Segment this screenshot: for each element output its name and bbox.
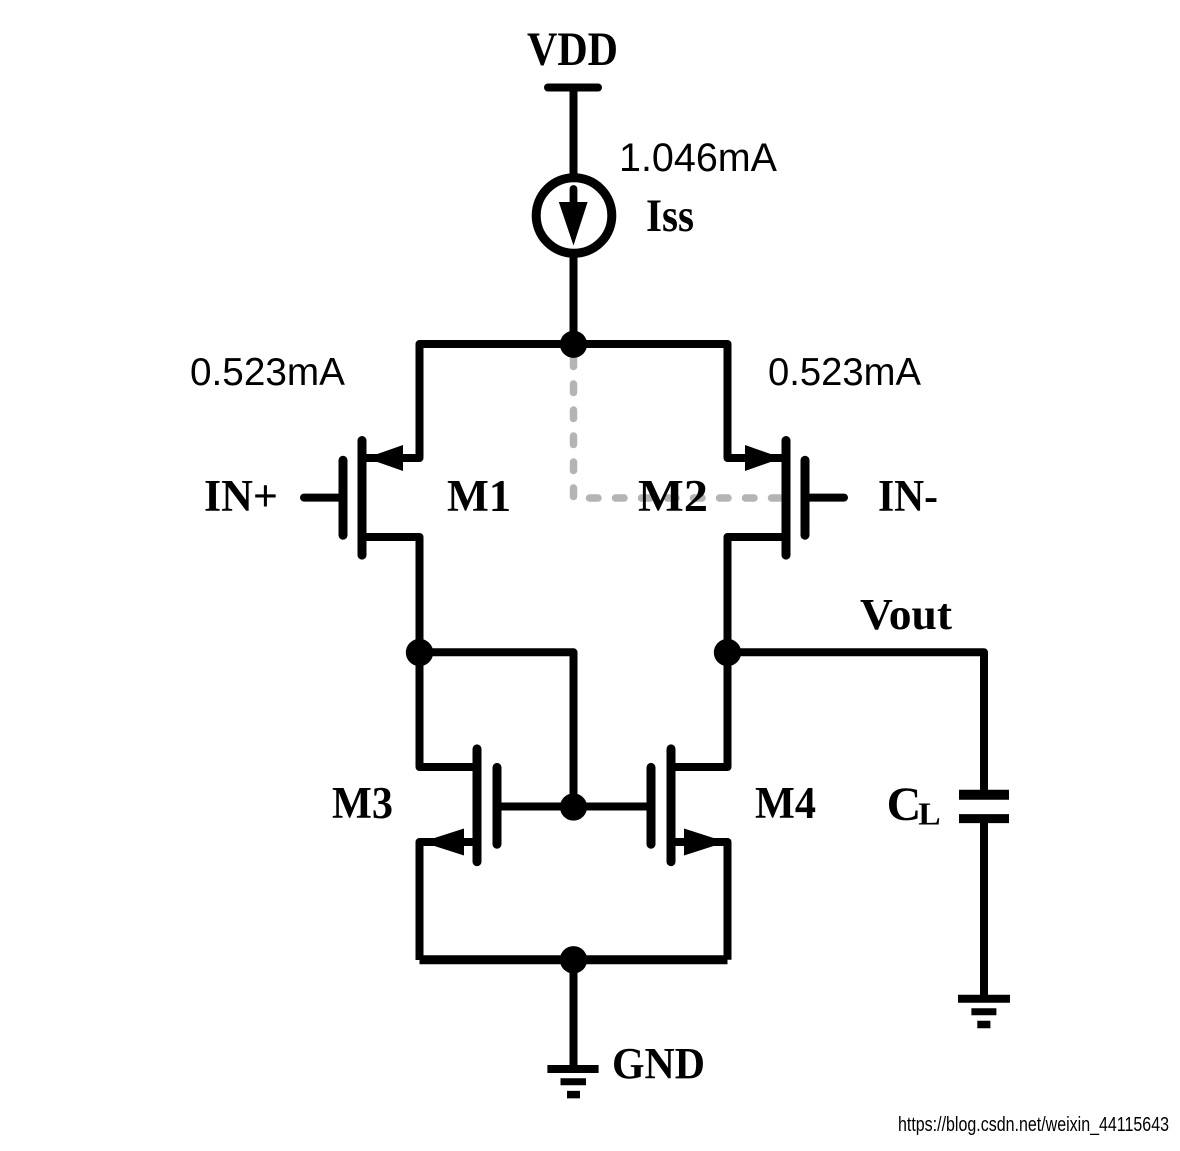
watermark [898,1114,1169,1136]
svg-text:GND: GND [612,1039,705,1088]
wire M3 source to ground rail [420,842,478,960]
wire Iss to tail node [570,253,578,344]
label Vout [860,590,952,639]
label M4 [755,778,816,828]
net label VDD [527,23,618,76]
label 0.523mA left [190,351,345,394]
bottom ground rail [420,955,728,964]
label M1 [447,471,511,521]
wire Vout to CL [728,652,985,791]
node M2 drain Vout [714,639,741,666]
wire M4 source to ground rail [671,842,728,960]
transistor M2 [745,441,844,556]
gate rail M3 M4 [497,803,651,811]
capacitor CL [959,795,1009,819]
ground symbol CL [958,999,1010,1025]
transistor M4 [651,749,726,862]
svg-text:M4: M4 [755,778,816,828]
label Iss [646,190,694,242]
wire tail rail with M1 M2 source leads [366,344,782,458]
wire VDD to Iss [570,88,578,180]
ground symbol GND [547,1069,598,1095]
svg-text:M2: M2 [638,471,708,521]
node mirror gates [560,793,587,820]
wire M3 drain [420,652,478,767]
svg-text:1.046mA: 1.046mA [619,136,777,180]
wire to GND symbol [570,960,578,1065]
svg-text:Iss: Iss [646,190,694,242]
svg-text:L: L [918,797,940,832]
label GND [612,1039,705,1088]
svg-text:M3: M3 [332,778,393,828]
power rail VDD symbol [548,84,598,92]
svg-text:VDD: VDD [527,23,618,76]
wire M2 drain down [728,537,787,652]
label M2 [638,471,708,521]
node M1 drain [406,639,433,666]
svg-text:0.523mA: 0.523mA [768,351,921,394]
dashed mirror line [574,358,781,498]
svg-text:C: C [887,778,922,831]
label CL [887,778,941,832]
node ground rail [560,946,587,973]
wire M4 drain [671,652,728,767]
svg-text:IN+: IN+ [204,471,278,521]
current source Iss [536,178,612,254]
svg-text:Vout: Vout [860,590,952,639]
wire drain node to mirror gates [420,652,574,807]
wire M1 drain down [362,537,420,652]
label 0.523mA right [768,351,921,394]
node tail [560,331,587,358]
transistor M1 [304,441,403,556]
label 1.046mA [619,136,777,180]
svg-text:M1: M1 [447,471,511,521]
wire CL to ground [980,823,988,995]
svg-text:0.523mA: 0.523mA [190,351,345,394]
svg-text:IN-: IN- [878,471,938,521]
label IN- [878,471,938,521]
label M3 [332,778,393,828]
transistor M3 [422,749,497,862]
label IN+ [204,471,278,521]
svg-text:https://blog.csdn.net/weixin_4: https://blog.csdn.net/weixin_44115643 [898,1114,1169,1136]
